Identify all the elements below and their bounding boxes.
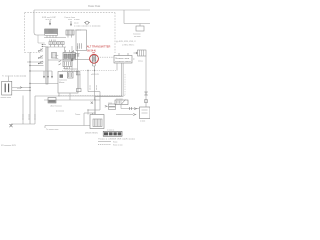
stub wires at bar top [43, 45, 46, 47]
grid2 bottom pins [68, 35, 72, 38]
gauge bottom pair wire [122, 63, 123, 97]
box pin to wire y100 [69, 93, 71, 100]
housing pins [78, 43, 82, 49]
wire x95 link [94, 97, 96, 113]
motor feed horiz y113 [84, 112, 95, 114]
diode symbol [144, 92, 148, 95]
bus branch y72 [30, 70, 52, 72]
svg-text:Tx xxxxx xxxx: Tx xxxxx xxxx [46, 129, 58, 131]
wire under grids [44, 37, 66, 39]
arrow drop 2 [47, 71, 49, 78]
contact marks column [59, 61, 61, 65]
svg-text:xx xx xx: xx xx xx [46, 19, 52, 21]
connector bars [130, 107, 132, 110]
bus junction dots [29, 61, 30, 91]
small switch on column [71, 51, 74, 53]
svg-text:Mxxxx: Mxxxx [59, 82, 64, 84]
module C marks [69, 73, 72, 77]
cab boundary dashed top [25, 12, 116, 14]
junction dots left of switches [38, 50, 39, 64]
terminal strip seg3 [57, 42, 60, 45]
svg-text:xXXX XX: xXXX XX [91, 74, 100, 76]
svg-text:Xxxxx Xxxx: Xxxxx Xxxx [88, 5, 101, 8]
module A cell 3 [72, 54, 75, 58]
strip drop wires [51, 45, 63, 48]
small component under housing [75, 54, 80, 57]
svg-text:Axx Xxxxxxx: Axx Xxxxxxx [51, 104, 62, 107]
stub under feeder [38, 35, 45, 43]
svg-text:xxx xxx: xxx xxx [35, 114, 37, 120]
small comp below dashed [76, 72, 80, 75]
wire y100 [44, 99, 100, 101]
wire bar to module B [48, 59, 63, 61]
fusebox flat [115, 100, 128, 105]
regulator box [136, 26, 144, 31]
terminal strip seg1 [49, 42, 52, 45]
svg-text:xxx: xxx [56, 58, 59, 60]
motor feed horiz y110 [88, 109, 100, 111]
harness trunk bar [46, 47, 48, 84]
module A cell 2 [68, 54, 71, 58]
sensor wire y91.6 [88, 91, 100, 93]
air cleaner box [48, 98, 56, 104]
pair x78 on box edge [78, 72, 80, 89]
legend row 3 sample [98, 143, 111, 145]
fusebox marks [117, 101, 122, 104]
small blob on column [71, 59, 73, 61]
legend stamp box [103, 131, 122, 136]
small fuse on right column [145, 100, 148, 103]
svg-text:xx xx: xx xx [68, 19, 72, 21]
arrow drop 3 [51, 71, 53, 78]
motor feed vert x88 [87, 110, 89, 115]
module B marks [65, 62, 71, 66]
svg-text:xxx xx: xxx xx [90, 85, 92, 90]
bus branch y83.5 [30, 83, 58, 85]
svg-text:xx: xx [40, 49, 42, 51]
svg-text:xx xx: xx xx [108, 103, 112, 105]
compressor motor box [58, 72, 78, 94]
cab boundary dashed left [25, 13, 41, 53]
sender wire lower [12, 90, 30, 92]
main top wire [34, 9, 150, 11]
legend row 2 sample [98, 141, 111, 143]
transmitter pins down [93, 61, 96, 71]
terminal strip seg4 [61, 42, 64, 45]
dark blob component [60, 74, 64, 77]
svg-text:(x) XXX, XXX, XXX, X: (x) XXX, XXX, XXX, X [116, 41, 136, 43]
svg-text:Txxx x xXXX XX xxX xxxx: Txxx x xXXX XX xxX xxxx [98, 139, 135, 141]
motor feed vert x84 [83, 113, 85, 126]
grid1 bottom pins [47, 35, 56, 37]
right trunk vertical [77, 46, 79, 75]
module B bottom pins [65, 67, 70, 70]
wire transmitter down to bus [94, 71, 96, 101]
module box A [63, 53, 76, 60]
svg-text:ALT TRANSMITTER: ALT TRANSMITTER [87, 45, 111, 49]
transmitter symbol in circle [92, 56, 96, 61]
module box B [63, 61, 72, 67]
wire fusebox down [120, 105, 122, 109]
dotted box bottom edge [58, 95, 125, 97]
svg-text:xxxxxx xxxx: xxxxxx xxxx [1, 97, 12, 99]
lamp leads [84, 22, 90, 24]
relay box small hatch [53, 53, 56, 59]
pickup hatch [140, 50, 144, 56]
switch symbol 1 [39, 49, 43, 52]
svg-text:Xxxx: Xxxx [113, 142, 117, 144]
wire y108.5 [121, 108, 139, 110]
svg-text:(XXXX XXXX): (XXXX XXXX) [85, 133, 98, 135]
red circle highlight [90, 54, 99, 63]
lamp feed drop [8, 77, 10, 82]
cab boundary dashed right [114, 13, 116, 54]
drop to module [64, 47, 66, 53]
gauge top pins [119, 53, 128, 56]
module C box [68, 72, 74, 78]
small fuse boxes top right cluster [109, 104, 116, 106]
ground rail [11, 123, 35, 125]
fusebox diagonal [122, 100, 126, 105]
connector at box corner [77, 89, 82, 92]
legend stamp dark text [104, 132, 108, 135]
bus branch y65.5 [30, 65, 44, 67]
relay box small [52, 53, 57, 59]
svg-text:(x xxxxx): (x xxxxx) [56, 111, 64, 113]
left vertical small column [71, 46, 73, 71]
arrowhead right 2 [133, 114, 136, 116]
left drop x35 [34, 96, 36, 124]
switch symbol 2 [39, 56, 43, 59]
wire y114.5 [116, 114, 133, 116]
svg-text:xx x: xx x [17, 88, 20, 90]
svg-text:XX xxxxxxx XXX: XX xxxxxxx XXX [1, 145, 16, 147]
svg-text:xxxxxxx xxxxx: xxxxxxx xxxxx [115, 61, 131, 63]
dashed wire lower [62, 70, 116, 72]
sender box left [2, 81, 12, 95]
svg-text:xxx xxxx: xxx xxxx [116, 99, 123, 101]
heater grid left hatch [45, 29, 57, 33]
sender plates [5, 84, 8, 93]
svg-text:(W-34-4): (W-34-4) [87, 49, 96, 53]
starter inner box [93, 119, 102, 127]
feeder from top wire [34, 10, 45, 35]
box D inner mark [142, 110, 148, 113]
svg-text:xxx xx: xxx xx [96, 85, 98, 90]
bottom wire to chassis [45, 126, 90, 129]
transmitter inner mark [93, 57, 95, 61]
ground X mark [9, 124, 12, 127]
wire top right vertical [123, 10, 125, 24]
plug arrow left [49, 20, 51, 25]
motor feed vert 1 [94, 100, 96, 113]
svg-text:x xxxx x: x xxxx x [107, 129, 114, 131]
splice mark [91, 102, 93, 104]
junction dots mid [87, 70, 95, 114]
pickup component with arrow [138, 50, 147, 56]
gauge bottom pin 1 [116, 63, 118, 71]
svg-text:xx: xx [40, 56, 42, 58]
wire x100 drop [99, 92, 101, 110]
sensor wire x88 [87, 71, 89, 92]
svg-text:Cxxxxxxx: Cxxxxxxx [59, 79, 67, 81]
svg-text:xxx: xxx [56, 55, 59, 57]
svg-text:xxx xxx: xxx xxx [23, 114, 25, 120]
heater grid 2 box [66, 30, 74, 35]
svg-text:x XXX, XXX x: x XXX, XXX x [122, 44, 134, 46]
dashed wire to gauge box [98, 56, 115, 58]
wire right column down [145, 56, 147, 107]
wire to regulator [124, 24, 150, 27]
svg-text:x xxxx: x xxxx [74, 19, 80, 21]
module A top pins [66, 50, 74, 53]
sender wire upper [12, 87, 30, 89]
arrowhead right [134, 108, 137, 110]
ground drop [10, 124, 12, 126]
starter pins [93, 113, 96, 115]
lamp symbol [86, 21, 89, 24]
svg-text:xxxx x: xxxx x [63, 68, 68, 70]
red tick [92, 52, 95, 54]
starter motor box [90, 115, 104, 129]
left bus vertical [29, 52, 31, 124]
svg-text:Xxxxx xxx: Xxxxx xxx [115, 58, 129, 60]
svg-text:xxx xxx: xxx xxx [29, 114, 31, 120]
terminal strip seg2 [53, 42, 56, 45]
switch symbol 3 [39, 61, 43, 64]
box bottom drop [58, 93, 60, 97]
mid wire pair bend [35, 95, 123, 98]
plug arrow right [70, 21, 72, 26]
left drop x23 [22, 96, 24, 125]
starter inner hatch [95, 119, 101, 127]
heater grid lower row [45, 33, 58, 35]
heater grid 2 hatch [67, 30, 72, 35]
module A cell 1 [64, 54, 67, 58]
svg-text:Txxxx: Txxxx [75, 114, 80, 116]
connector housing tall box [76, 30, 86, 51]
pickup arrow [134, 52, 138, 54]
gauge box [114, 56, 132, 64]
air cleaner dark fill [48, 100, 55, 103]
svg-text:xxx g: xxx g [138, 61, 142, 63]
collector wire y47 [46, 46, 66, 48]
sender wire arrow [20, 87, 22, 89]
arrow drop 1 [43, 71, 45, 78]
battery box D [140, 107, 151, 119]
dotted box right edge [124, 74, 126, 96]
svg-text:(x: (x [133, 59, 135, 61]
svg-text:x xxx xxxxx x xxxxxx: x xxx xxxxx x xxxxxx [74, 25, 101, 27]
wire into circle [70, 59, 90, 61]
terminal strip hatch [51, 42, 63, 45]
svg-text:x xxxx: x xxxx [140, 121, 145, 123]
wire under module B [65, 68, 78, 70]
svg-text:T. xxxxxx Lxxx (xxx): T. xxxxxx Lxxx (xxx) [2, 76, 26, 78]
heater grid left box [45, 29, 58, 33]
svg-text:Xxxx x xxx: Xxxx x xxx [113, 144, 122, 146]
svg-text:xx xxxx: xx xxxx [134, 36, 141, 38]
svg-text:xx.xx: xx.xx [74, 23, 79, 25]
bus branch y62 [27, 61, 44, 63]
